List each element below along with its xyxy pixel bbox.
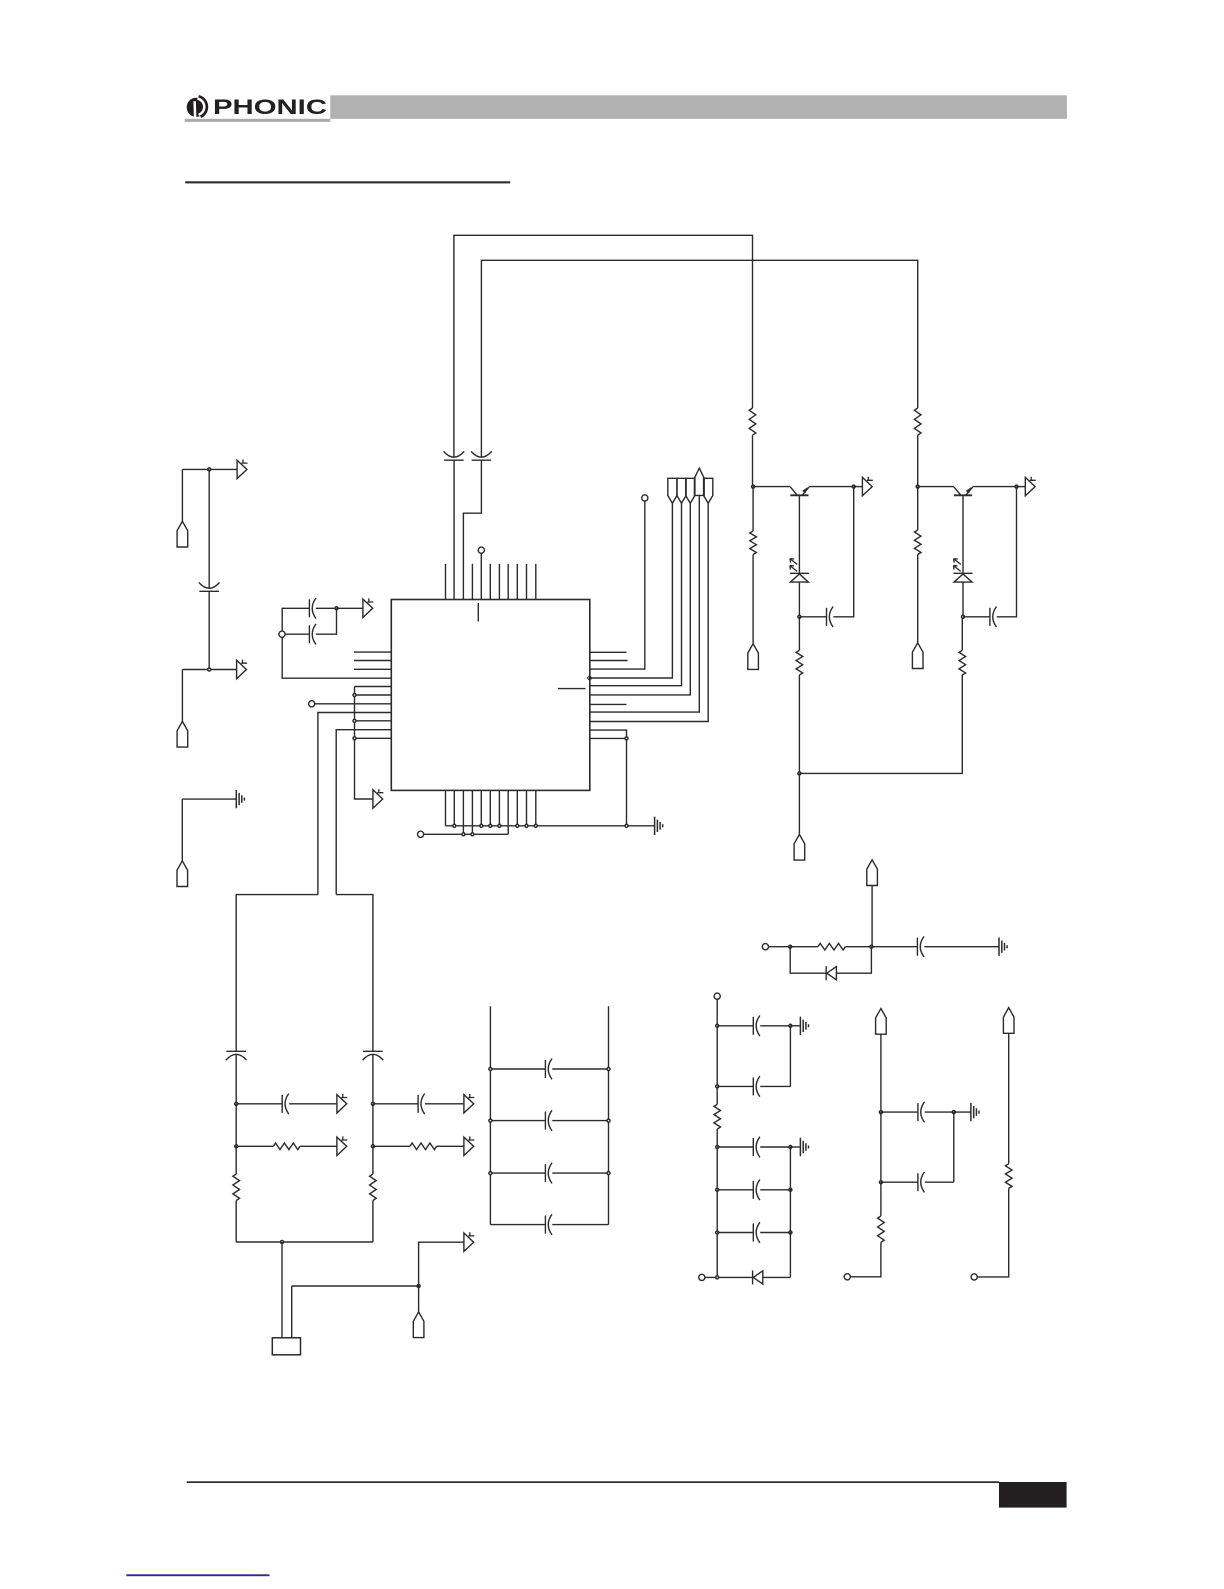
wire C1 to U1 pin2 <box>453 460 455 599</box>
net arrow A2 <box>237 660 247 679</box>
resistor R9 <box>410 1143 437 1150</box>
wire Q2 res branch <box>917 487 919 530</box>
wire C4 left <box>285 633 309 635</box>
ground GND2 <box>655 817 663 835</box>
wire pin XTAL2 down <box>336 730 391 895</box>
wire bottom lower line <box>424 833 508 835</box>
wire Q2 base <box>918 486 954 488</box>
wire M bottom <box>851 1242 881 1276</box>
resistor R4 <box>914 530 921 555</box>
flag fan big power <box>694 468 704 495</box>
flag F1 <box>177 521 188 547</box>
wire F8 drop <box>880 1034 882 1112</box>
wire R7 to arrow <box>300 1145 337 1147</box>
wire xtal lead 2 <box>291 1286 293 1338</box>
capacitor C19 <box>753 1137 760 1158</box>
wire group1 left drop <box>181 469 183 521</box>
wire group2 horizontal <box>182 669 236 671</box>
junction osc R1 <box>371 1102 374 1105</box>
junction diode in <box>789 945 792 948</box>
flag fan 5 <box>704 478 713 503</box>
Phonic logo text <box>213 95 327 119</box>
wire osc top right <box>336 895 373 1052</box>
junction L rung4 right <box>789 1188 792 1191</box>
resistor R6 <box>959 650 966 675</box>
wire Q1 res branch <box>752 487 754 531</box>
junction bias node <box>798 772 801 775</box>
junction D1 node <box>798 615 801 618</box>
wire osc L1 row <box>236 1103 337 1105</box>
wire W2 top loop <box>481 260 917 457</box>
wire node to C6 <box>799 616 826 618</box>
svg-text:PHONIC: PHONIC <box>213 95 327 119</box>
junction L bottom <box>716 1276 719 1279</box>
capacitor C7 <box>990 607 997 628</box>
wire group3 left drop <box>181 799 183 861</box>
junction L4 <box>716 1188 719 1191</box>
resistor R5 <box>796 650 803 675</box>
wire F9 drop <box>1008 1033 1010 1164</box>
junction Q1 base node <box>752 485 755 488</box>
capacitor C22 <box>918 1102 925 1123</box>
wire C10 down <box>372 1054 374 1103</box>
wire L rail mid <box>716 1129 718 1277</box>
ground GND3 <box>999 938 1007 956</box>
wire cap ladder right rail <box>608 1006 610 1224</box>
node bottom circle <box>418 831 424 837</box>
resistor R8 <box>233 1174 240 1201</box>
flag F3 <box>177 861 188 887</box>
net arrow A4 <box>373 789 383 808</box>
junction L5 <box>716 1231 719 1234</box>
wire group3 horizontal <box>182 798 236 800</box>
wire node to C16 <box>871 946 917 948</box>
wire R6 to node <box>961 617 963 651</box>
wire Q1 base <box>753 486 790 488</box>
header gray underline <box>185 119 331 122</box>
wire node to R5 <box>798 617 800 651</box>
U1 right pin stubs <box>590 652 628 704</box>
wire ladder rung 4 <box>490 1224 608 1226</box>
wire bottom gnd bus <box>446 825 655 827</box>
wire ladder rung 1 <box>490 1068 608 1070</box>
wire L right link 2 <box>789 1147 791 1277</box>
wire C6 right up <box>833 487 853 617</box>
wire R1 to Q1 node <box>752 435 754 486</box>
wire rung1 to gnd <box>954 1111 971 1113</box>
capacitor C8 <box>226 1051 247 1060</box>
flag fan 3 <box>686 478 695 503</box>
wire M to R13 <box>880 1182 882 1216</box>
junction dots lower line <box>462 833 474 836</box>
wire L rung2 <box>717 1085 790 1087</box>
wire L ladder rail top <box>716 999 718 1104</box>
wire fan 3 <box>590 503 690 695</box>
wire osc R to R10 <box>372 1146 374 1174</box>
capacitor C20 <box>753 1180 760 1201</box>
flag F8 <box>876 1009 887 1035</box>
wire Q2 emitter to node <box>973 486 1017 488</box>
node L bottom circle <box>699 1274 705 1280</box>
wire R9 to arrow <box>437 1145 464 1147</box>
wire L right link 1 <box>789 1026 791 1087</box>
junction rung3 <box>489 1172 610 1175</box>
wire xtal out <box>292 1285 419 1287</box>
capacitor C13 <box>545 1110 552 1131</box>
junction M1 <box>879 1111 882 1114</box>
wire osc L mid <box>235 1104 237 1147</box>
wire osc R1 row <box>373 1103 464 1105</box>
flag F10 <box>413 1312 424 1338</box>
junction C3 node <box>335 607 338 610</box>
capacitor C16 <box>917 936 924 957</box>
wire C5 to group2 <box>208 591 210 669</box>
wire C16 to gnd <box>924 946 999 948</box>
capacitor C15 <box>545 1214 552 1235</box>
wire circle pin stub <box>315 703 391 705</box>
junction L3 <box>716 1146 719 1149</box>
wire D1 to node <box>798 582 800 617</box>
wire D2 to node <box>962 582 964 617</box>
wire right pins to gnd bus <box>590 730 627 826</box>
junction Q2 out <box>1015 485 1018 488</box>
capacitor C23 <box>918 1172 925 1193</box>
wire M rung1 <box>881 1111 954 1113</box>
wire bias crossover <box>799 675 962 773</box>
node M circle <box>844 1274 850 1280</box>
net arrow A11 <box>464 1232 474 1251</box>
net arrow A8 <box>337 1136 347 1155</box>
wire fan 5 <box>590 503 708 721</box>
wire node to C7 <box>963 616 990 618</box>
wire L rung1 <box>717 1025 790 1027</box>
diode D4 <box>753 1270 763 1284</box>
wire C2 jog to U1 pin3 <box>463 460 481 599</box>
wire left vertical bus <box>355 687 373 800</box>
net arrow A10 <box>464 1136 474 1155</box>
junction L1 <box>716 1024 719 1027</box>
wire C8 down <box>235 1054 237 1103</box>
LED D1 <box>790 559 809 583</box>
U1 bottom pins <box>446 790 536 834</box>
junction L rung5 right <box>789 1231 792 1234</box>
junction Q1 out <box>852 485 855 488</box>
resistor R3 <box>750 531 757 555</box>
junction L rung1 right <box>789 1024 792 1027</box>
capacitor C18 <box>753 1076 760 1097</box>
capacitor C12 <box>545 1059 552 1080</box>
wire group1 horizontal <box>182 468 237 470</box>
node R circle <box>971 1274 977 1280</box>
wire R14 bottom <box>977 1188 1008 1277</box>
transistor Q1 <box>790 487 809 495</box>
wire osc L bottom <box>235 1201 237 1243</box>
junction osc L1 <box>235 1102 238 1105</box>
footer blue link line <box>126 1574 269 1576</box>
Phonic logo mark <box>187 96 207 119</box>
wire L rung3 <box>717 1146 790 1148</box>
wire right pin to node circle <box>590 501 645 669</box>
wire F7 drop <box>871 886 873 947</box>
resistor R1 <box>749 408 756 435</box>
wire input <box>769 946 791 948</box>
wire C4 right up <box>316 608 337 634</box>
node C4 circle <box>279 631 285 637</box>
wire Q1 emitter to node <box>809 486 854 488</box>
wire L rung4 <box>717 1189 790 1191</box>
flag F9 <box>1003 1008 1014 1034</box>
ground GND1 <box>236 790 244 808</box>
wire D3 out <box>836 947 871 974</box>
net arrow A7 <box>337 1094 347 1113</box>
wire xtal out flag drop <box>418 1286 420 1312</box>
wire group2 left drop <box>181 670 183 722</box>
wire R2 to Q2 node <box>917 435 919 486</box>
capacitor C11 <box>418 1094 425 1115</box>
wire M right link <box>953 1112 955 1182</box>
capacitor C17 <box>753 1016 760 1037</box>
capacitor C2 <box>471 451 492 460</box>
footer page box <box>999 1482 1067 1508</box>
wire pin XTAL1 down <box>318 713 391 895</box>
capacitor C5 <box>199 583 220 592</box>
capacitor C3 <box>309 598 316 619</box>
wire to R11 <box>790 946 818 948</box>
node left pin circle <box>309 701 315 707</box>
LED D2 <box>953 559 972 583</box>
wire group1 cap drop <box>208 469 210 588</box>
wire L bottom rung <box>705 1276 753 1278</box>
wire osc bottom rail <box>236 1241 373 1243</box>
node pin5 circle <box>478 547 484 553</box>
wire bias to flag F6 <box>798 773 800 834</box>
ground GND4 <box>800 1017 808 1035</box>
wire osc R2 row lead <box>373 1145 410 1147</box>
wire R5 down <box>798 675 800 773</box>
junction L rung3 right <box>789 1146 792 1149</box>
resistor R11 <box>818 943 846 950</box>
node L ladder top circle <box>714 993 720 999</box>
U1 left pin stubs <box>354 652 391 669</box>
junction M rung1 right <box>952 1111 955 1114</box>
capacitor C6 <box>827 607 834 628</box>
flag F2 <box>177 721 188 747</box>
wire R3 to flag <box>752 555 754 644</box>
junction group2 <box>208 668 211 671</box>
transistor Q2 <box>954 487 973 495</box>
junction xtal node <box>281 1241 284 1244</box>
flag F5 <box>912 643 923 669</box>
ground GND5 <box>800 1138 808 1156</box>
wire C7 right up <box>997 487 1017 617</box>
wire rung3 to gnd <box>790 1146 800 1148</box>
capacitor C10 <box>363 1051 384 1060</box>
footer rule <box>187 1481 999 1483</box>
title underline <box>185 181 510 183</box>
IC U1 body <box>391 600 590 791</box>
flag F7 <box>867 860 878 886</box>
wire rung1 to gnd <box>790 1025 800 1027</box>
wire diode branch <box>790 947 826 974</box>
U1 right edge diamond <box>587 676 592 681</box>
wire left pin net <box>355 687 392 739</box>
junction osc L2 <box>235 1145 238 1148</box>
capacitor C9 <box>282 1094 289 1115</box>
wire to arrow A5 <box>854 486 863 488</box>
capacitor C21 <box>753 1222 760 1243</box>
wire W1 top loop <box>454 235 753 457</box>
U1 top pin stubs <box>446 564 536 600</box>
wire cap ladder left rail <box>489 1006 491 1224</box>
wire osc L to R8 <box>235 1146 237 1174</box>
resistor R12 <box>714 1104 721 1129</box>
wire C3 right to node <box>316 607 337 609</box>
junction rung2 <box>489 1119 610 1122</box>
junction right gnd <box>625 737 628 740</box>
flag fan 2 <box>677 478 686 503</box>
wire C3 left <box>282 608 391 678</box>
wire osc R bottom <box>372 1201 374 1243</box>
wire fan 4 <box>590 495 699 712</box>
junction dots gnd bus <box>453 824 628 827</box>
wire osc R mid <box>372 1104 374 1147</box>
resistor R10 <box>370 1174 377 1201</box>
crystal X1 <box>272 1338 300 1355</box>
junction rung1 <box>489 1068 610 1071</box>
resistor R7 <box>273 1143 300 1150</box>
flag fan 1 <box>668 478 677 503</box>
wire osc L2 row lead <box>236 1145 273 1147</box>
wire node to arrow A3 <box>337 607 363 609</box>
junction RC node <box>870 945 873 948</box>
net arrow A9 <box>464 1094 474 1113</box>
node input circle <box>762 944 768 950</box>
wire pin5 stub <box>480 553 482 599</box>
junction Q2 base node <box>916 485 919 488</box>
header gray bar <box>330 95 1067 119</box>
junction osc R2 <box>371 1145 374 1148</box>
flag F4 <box>748 644 759 670</box>
wire xtal lead 1 <box>281 1242 283 1338</box>
wire ladder rung 3 <box>490 1172 608 1174</box>
wire ladder rung 2 <box>490 1120 608 1122</box>
resistor R14 <box>1005 1164 1012 1189</box>
capacitor C1 <box>444 451 465 460</box>
flag F6 <box>794 834 805 860</box>
net arrow A5 <box>862 477 872 496</box>
wire M rail mid <box>880 1112 882 1182</box>
node fan circle <box>642 495 648 501</box>
wire osc top left <box>236 895 318 1052</box>
wire D4 out <box>763 1276 791 1278</box>
junction dots left bus <box>353 694 356 740</box>
junction L2 <box>716 1085 719 1088</box>
net arrow A1 <box>237 460 247 479</box>
wire R4 to flag <box>917 555 919 643</box>
wire Q2 LED branch <box>962 495 964 573</box>
net arrow A6 <box>1025 477 1035 496</box>
capacitor C4 <box>309 624 316 645</box>
wire xtal out up to arrow <box>419 1242 464 1286</box>
net arrow A3 <box>363 598 373 617</box>
wire fan 2 <box>590 503 682 686</box>
junction group1 <box>208 468 211 471</box>
wire R11 to node <box>845 946 871 948</box>
resistor R13 <box>878 1216 885 1243</box>
wire L rung5 <box>717 1232 790 1234</box>
wire M rung2 <box>881 1181 954 1183</box>
wire fan 1 <box>590 503 672 678</box>
junction D2 node <box>962 615 965 618</box>
junction M2 <box>879 1181 882 1184</box>
wire Q1 LED branch <box>798 495 800 573</box>
U1 inner pin line <box>558 688 586 690</box>
ground GND6 <box>971 1103 979 1121</box>
capacitor C14 <box>545 1163 552 1184</box>
junction xtal out <box>417 1285 420 1288</box>
wire to arrow A6 <box>1017 486 1026 488</box>
resistor R2 <box>914 408 921 435</box>
diode D3 <box>826 966 836 980</box>
U1 pin1 marker line <box>477 603 479 622</box>
